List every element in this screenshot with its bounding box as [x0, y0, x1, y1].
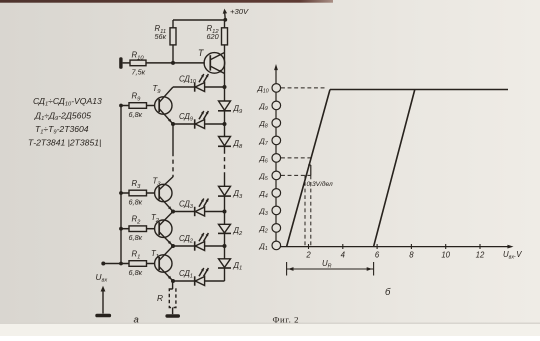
- node rail CD10 junction: [223, 85, 227, 89]
- graph output node circles D1-D10: [272, 84, 281, 250]
- wire rail dashed omitted stages: [224, 146, 226, 186]
- graph horizontal axis Uvx: [276, 245, 514, 249]
- wire CD10 to rail: [205, 86, 225, 88]
- LED CD1 light arrows: [199, 268, 208, 276]
- svg-text:Т1÷Т9-2Т3604: Т1÷Т9-2Т3604: [35, 124, 89, 136]
- svg-text:Т: Т: [198, 48, 204, 58]
- svg-text:56к: 56к: [155, 32, 167, 41]
- svg-text:12: 12: [476, 251, 485, 260]
- page bottom white margin: [0, 324, 540, 336]
- diode D1: [218, 259, 231, 281]
- label T3: [153, 177, 162, 188]
- wire CD2 to rail: [205, 244, 227, 248]
- label Uvx: [96, 272, 108, 284]
- resistor R12: [222, 20, 228, 45]
- label R3 value 6,8k: [129, 179, 143, 207]
- label D9: [233, 104, 244, 115]
- resistor R2: [121, 226, 154, 232]
- label CD9: [179, 112, 193, 123]
- label R9 value 6,8k: [129, 92, 143, 120]
- label T9: [153, 84, 162, 95]
- dashed guide D10 level: [281, 87, 327, 89]
- LED CD3 light arrows: [199, 199, 208, 207]
- label D8: [233, 139, 244, 150]
- curve top saturation line: [330, 89, 508, 91]
- LED CD10: [195, 82, 205, 91]
- svg-text:2: 2: [305, 251, 311, 260]
- wire T3 emitter to CD3: [171, 210, 195, 214]
- graph vertical axis: [274, 64, 278, 247]
- dark strip scan edge top: [0, 0, 333, 3]
- wire CD9 to rail: [205, 122, 227, 126]
- graph circle labels D1-D10: [257, 84, 269, 252]
- LED CD9: [195, 119, 205, 128]
- transistor T1: [155, 246, 173, 281]
- caption Fig 2: [273, 315, 300, 325]
- label T2: [151, 213, 160, 224]
- svg-text:R: R: [157, 293, 163, 303]
- LED CD1: [195, 276, 205, 285]
- power +30V supply arrow: [223, 9, 228, 22]
- dashed verticals to axis: [305, 175, 311, 246]
- label 0,3V/del: [307, 180, 333, 188]
- svg-text:6,8к: 6,8к: [129, 198, 143, 207]
- ground at Uvx: [95, 314, 111, 318]
- ground at R: [165, 314, 180, 318]
- label CD3: [179, 200, 193, 211]
- wire R10 to T base: [146, 62, 205, 64]
- axis tick marks: [309, 244, 481, 249]
- curve first slope segment: [287, 90, 330, 247]
- label b (graph): [385, 287, 391, 298]
- diode D9: [218, 101, 231, 137]
- wire base bus: [103, 104, 123, 266]
- LED CD2: [195, 241, 205, 250]
- dashed guide D6 level: [281, 157, 311, 159]
- label R1 value 6,8k: [129, 250, 143, 278]
- label R12 value 620: [207, 24, 220, 41]
- svg-text:8: 8: [409, 251, 414, 260]
- diode D3: [218, 186, 231, 224]
- transistor T: [204, 53, 225, 74]
- svg-text:6: 6: [375, 251, 380, 260]
- label D2: [233, 226, 244, 237]
- node Uvx input: [101, 262, 105, 266]
- input terminal of R10: [119, 57, 130, 69]
- svg-text:620: 620: [207, 32, 219, 41]
- LED CD10 light arrows: [199, 74, 208, 82]
- label R11 value 56k: [155, 24, 167, 41]
- input source Uvx arrow: [101, 286, 106, 314]
- wire CD1 to rail: [205, 280, 225, 282]
- parts list text block: [28, 96, 102, 148]
- svg-text:a: a: [134, 315, 139, 326]
- step mark 0,3V per division: [308, 165, 311, 175]
- svg-text:10: 10: [441, 251, 450, 260]
- svg-text:Фиг. 2: Фиг. 2: [273, 315, 300, 325]
- node R11/R10 junction: [171, 61, 175, 65]
- label T1: [151, 249, 159, 260]
- label UR: [322, 259, 332, 270]
- label D3: [233, 189, 244, 200]
- resistor R3: [121, 190, 154, 196]
- resistor R10: [130, 60, 146, 66]
- axis label Uvx V: [503, 250, 522, 261]
- wire +30V top rail: [173, 19, 225, 21]
- label D1: [233, 261, 243, 272]
- label R10 value 7,5k: [132, 51, 146, 77]
- axis tick labels: [305, 251, 485, 260]
- wire T9 emitter to CD9: [171, 122, 195, 126]
- label +30V value: [230, 7, 249, 16]
- transistor T2: [155, 212, 173, 247]
- label T: [198, 48, 204, 58]
- resistor R9: [121, 103, 154, 109]
- resistor R emitter load: [169, 281, 176, 314]
- transistor T9: [155, 87, 173, 124]
- wire T9 emitter column dashed to T3 collector: [172, 124, 174, 177]
- dashed guide D5 level: [281, 174, 311, 176]
- svg-text:+30V: +30V: [230, 7, 249, 16]
- resistor R1: [121, 261, 154, 267]
- curve second slope segment: [374, 90, 415, 247]
- svg-text:6,8к: 6,8к: [129, 110, 143, 119]
- svg-text:6,8к: 6,8к: [129, 268, 143, 277]
- LED CD3: [195, 207, 205, 216]
- dimension UR: [287, 262, 374, 276]
- svg-text:Т-2Т3841 |2Т3851|: Т-2Т3841 |2Т3851|: [28, 138, 101, 148]
- label CD10: [179, 75, 196, 86]
- wire T2 emitter to CD2: [171, 244, 195, 248]
- label a (circuit): [134, 315, 139, 326]
- label R: [157, 293, 163, 303]
- diode D2: [218, 224, 231, 258]
- label CD1: [179, 269, 193, 280]
- resistor R11: [170, 20, 176, 63]
- wire T1 emitter to CD1: [171, 279, 195, 283]
- wire CD3 to rail: [205, 210, 227, 214]
- LED CD9 light arrows: [199, 111, 208, 119]
- diode D8: [218, 137, 231, 147]
- label CD2: [179, 234, 193, 245]
- transistor T3: [155, 177, 173, 212]
- svg-text:б: б: [385, 287, 391, 298]
- svg-text:7,5к: 7,5к: [132, 68, 146, 77]
- svg-text:4: 4: [341, 251, 346, 260]
- wire T9 collector to CD10: [173, 86, 195, 88]
- wire diode rail upper: [224, 45, 226, 101]
- svg-text:6,8к: 6,8к: [129, 233, 143, 242]
- label R2 value 6,8k: [129, 215, 143, 243]
- LED CD2 light arrows: [199, 233, 208, 241]
